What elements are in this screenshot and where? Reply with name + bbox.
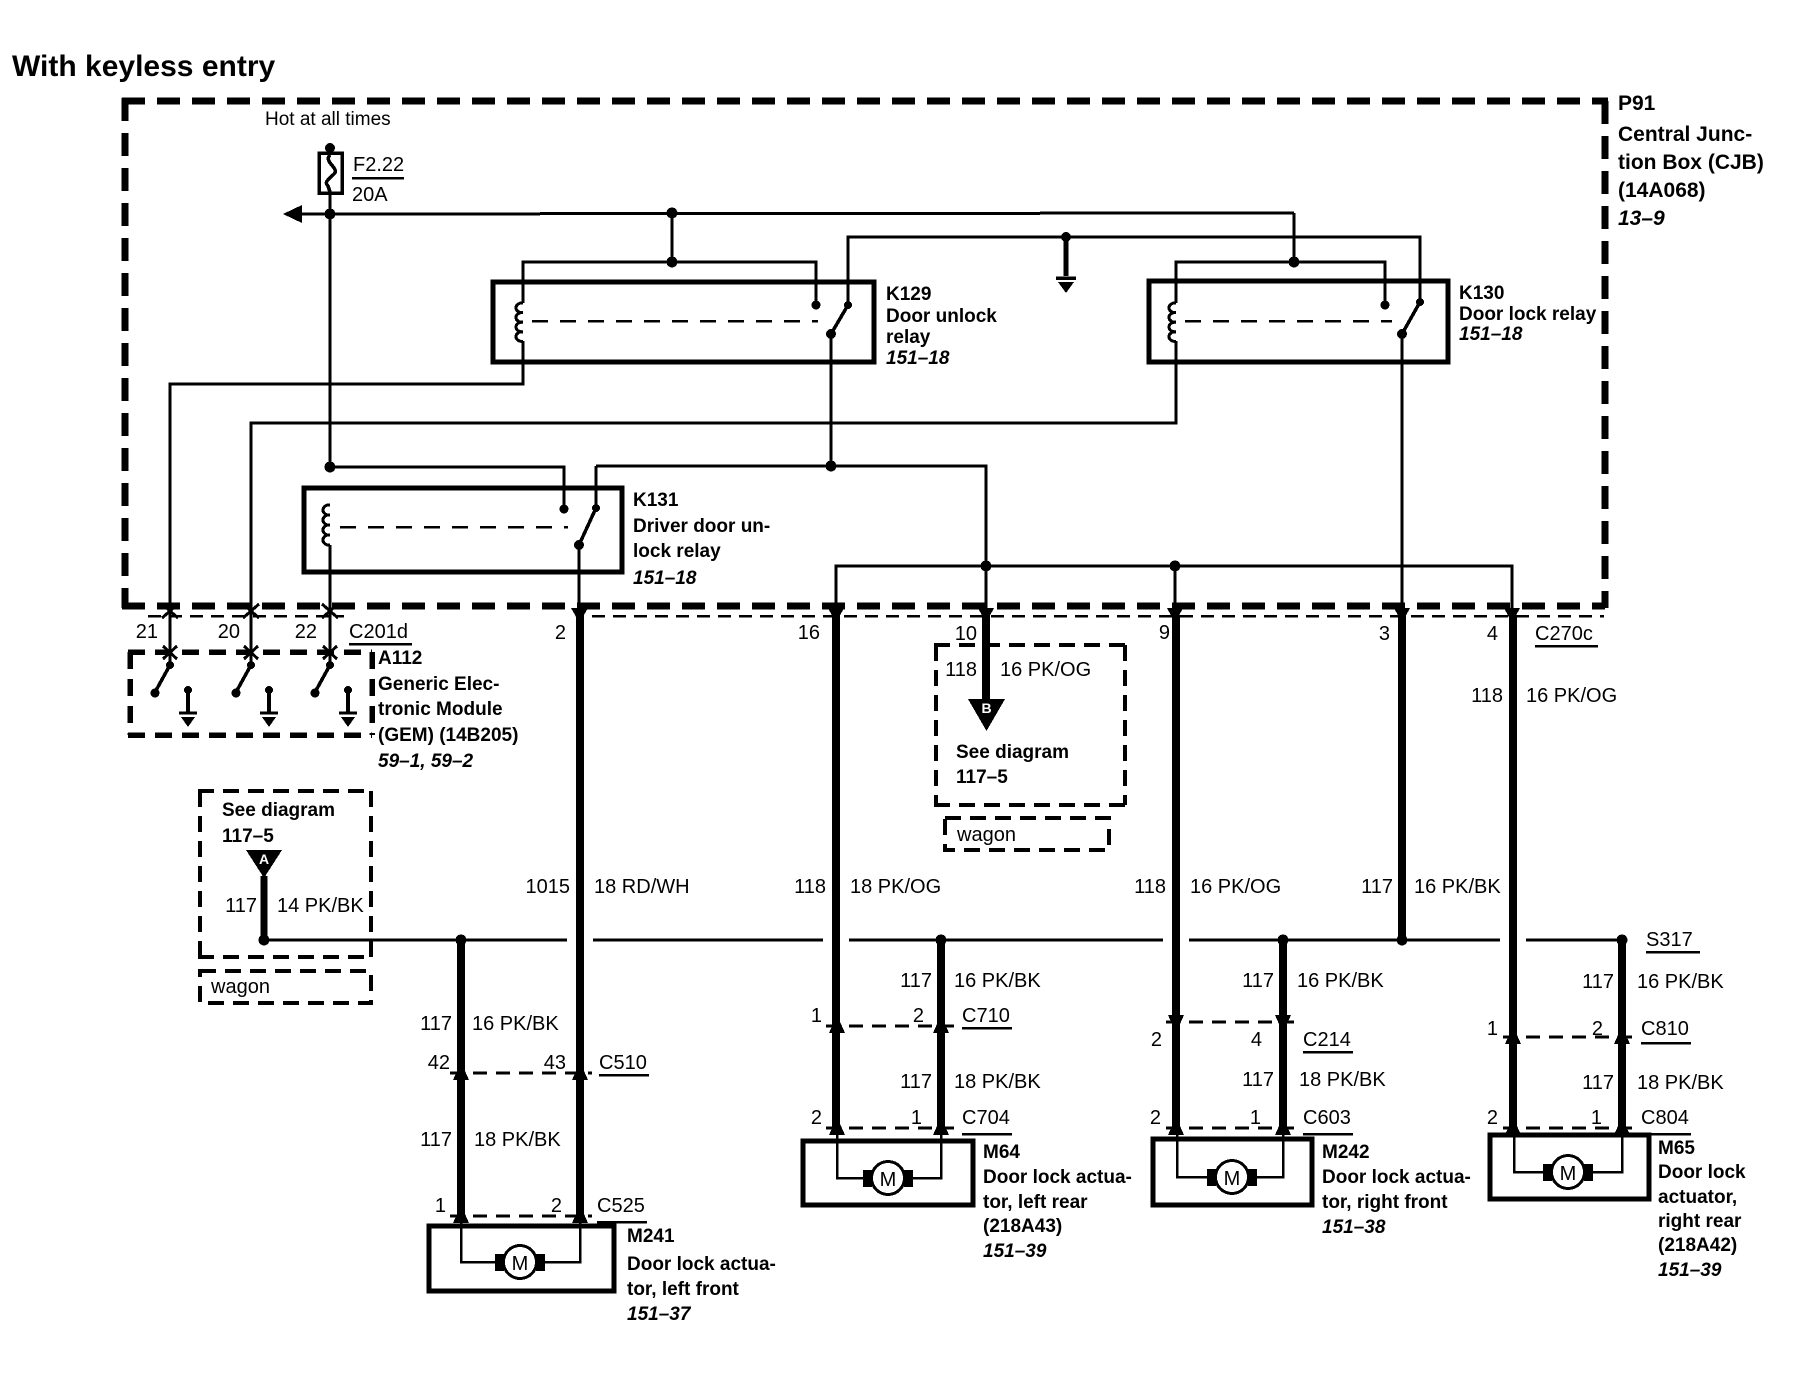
- connector C804: [1487, 1107, 1691, 1135]
- svg-text:2: 2: [555, 622, 566, 644]
- wire: M64 column branch thick: [937, 940, 945, 1128]
- svg-text:(14A068): (14A068): [1618, 179, 1706, 202]
- ground symbol (CJB): [1056, 237, 1076, 293]
- relay K129 pivot: [826, 329, 836, 339]
- relay K129 box: [493, 282, 874, 362]
- svg-text:C704: C704: [962, 1107, 1010, 1129]
- wire: drop to K130 coil rail: [1293, 213, 1296, 262]
- svg-text:tor, left front: tor, left front: [627, 1279, 740, 1300]
- wire: pin9 drop: [1174, 566, 1177, 613]
- svg-text:16 PK/BK: 16 PK/BK: [1637, 971, 1724, 993]
- wagon box (middle): [945, 818, 1109, 850]
- svg-text:16 PK/OG: 16 PK/OG: [1190, 876, 1281, 898]
- K130 label: [1459, 283, 1597, 345]
- node: fuse junction: [325, 209, 336, 220]
- actuator M65 box: [1490, 1135, 1649, 1199]
- svg-text:118: 118: [1471, 685, 1503, 707]
- GEM switch 2 ground: [260, 686, 278, 727]
- connector C704: [811, 1107, 1012, 1135]
- svg-text:tronic Module: tronic Module: [378, 699, 503, 720]
- svg-text:Central Junc-: Central Junc-: [1618, 123, 1752, 146]
- svg-text:151–18: 151–18: [886, 348, 950, 369]
- svg-text:Door lock relay: Door lock relay: [1459, 304, 1597, 325]
- M64 internal wires: [837, 1130, 941, 1178]
- pin 10 arrow: [978, 608, 994, 623]
- svg-text:42: 42: [428, 1052, 450, 1074]
- fuse F2.22 20A: [319, 143, 404, 206]
- relay K129 switch arm: [831, 305, 848, 334]
- see-diagram box B: [934, 645, 1127, 805]
- M242 label: [1322, 1142, 1471, 1238]
- M241 label: [627, 1226, 776, 1325]
- svg-text:151–37: 151–37: [627, 1304, 692, 1325]
- svg-text:10: 10: [955, 623, 977, 645]
- svg-text:C810: C810: [1641, 1018, 1689, 1040]
- relay K131 box: [304, 488, 622, 572]
- svg-text:2: 2: [1150, 1107, 1161, 1129]
- svg-text:20: 20: [218, 621, 240, 643]
- off-page arrow B: [968, 699, 1005, 731]
- svg-text:117: 117: [1361, 876, 1393, 898]
- svg-text:151–18: 151–18: [633, 568, 697, 589]
- svg-text:C201d: C201d: [349, 621, 408, 643]
- motor M241: [495, 1246, 545, 1279]
- svg-text:A112: A112: [378, 648, 422, 669]
- svg-text:118: 118: [945, 659, 977, 681]
- wire: M241 column branch thick: [457, 940, 465, 1216]
- node: A splice on lock rail: [259, 935, 270, 946]
- wire: pin 4 thick drop: [1509, 615, 1517, 1128]
- svg-text:4: 4: [1251, 1029, 1262, 1051]
- connector C270c dashed line: [592, 615, 1604, 618]
- relay K131 actuation dashed link: [340, 526, 568, 529]
- wire: K129 pivot output down: [830, 334, 833, 466]
- motor M64: [863, 1162, 913, 1195]
- svg-text:20A: 20A: [352, 184, 388, 206]
- relay K130 box: [1149, 281, 1448, 362]
- connector C710: [811, 1005, 1012, 1033]
- svg-text:lock relay: lock relay: [633, 541, 721, 562]
- pin 20 arrow: [243, 604, 259, 618]
- wire: K130 coil/contact feed rail: [1176, 262, 1385, 303]
- relay K130 actuation dashed link: [1185, 320, 1392, 323]
- svg-text:117: 117: [420, 1013, 452, 1035]
- svg-text:actuator,: actuator,: [1658, 1187, 1737, 1208]
- M242 internal wires: [1177, 1130, 1283, 1177]
- relay K129 fixed contact: [812, 301, 821, 310]
- wire: fuse feed horizontal with left arrow: [294, 213, 1294, 214]
- GEM pin 21 entry arrow: [163, 646, 177, 659]
- svg-text:M: M: [512, 1253, 529, 1275]
- svg-text:M241: M241: [627, 1226, 675, 1247]
- svg-text:(GEM) (14B205): (GEM) (14B205): [378, 725, 518, 746]
- svg-text:18 PK/BK: 18 PK/BK: [1299, 1069, 1386, 1091]
- svg-text:See diagram: See diagram: [222, 800, 335, 821]
- actuator M64 box: [803, 1141, 973, 1205]
- relay K129 coil: [516, 303, 523, 342]
- svg-text:1: 1: [1250, 1107, 1261, 1129]
- svg-text:S317: S317: [1646, 929, 1693, 951]
- see-diagram box A: [198, 791, 373, 957]
- node: pin 3 join: [1397, 935, 1408, 946]
- svg-text:K129: K129: [886, 284, 931, 305]
- GEM switch 1 ground: [179, 686, 197, 727]
- GEM switch 2: [232, 650, 256, 698]
- svg-text:151–38: 151–38: [1322, 1217, 1386, 1238]
- svg-text:Door unlock: Door unlock: [886, 306, 997, 327]
- see-diagram A text: [222, 800, 335, 847]
- motor M65: [1543, 1156, 1593, 1189]
- wire: K131 fixed contact feed: [330, 467, 564, 509]
- module A112 GEM dashed box: [128, 652, 372, 735]
- svg-text:C270c: C270c: [1535, 623, 1593, 645]
- svg-text:Door lock: Door lock: [1658, 1162, 1746, 1183]
- svg-text:B: B: [981, 700, 991, 716]
- svg-text:4: 4: [1487, 623, 1498, 645]
- svg-text:1015: 1015: [526, 876, 571, 898]
- svg-text:C603: C603: [1303, 1107, 1351, 1129]
- svg-text:1: 1: [435, 1195, 446, 1217]
- svg-text:C214: C214: [1303, 1029, 1351, 1051]
- K129 label: [886, 284, 997, 369]
- svg-text:With keyless entry: With keyless entry: [12, 50, 275, 83]
- svg-text:F2.22: F2.22: [353, 154, 404, 176]
- svg-text:2: 2: [1151, 1029, 1162, 1051]
- svg-text:2: 2: [1487, 1107, 1498, 1129]
- svg-text:Door lock actua-: Door lock actua-: [1322, 1167, 1471, 1188]
- node: pin10 drop junction: [981, 561, 992, 572]
- P91 Central Junction Box dashed border: [122, 98, 1608, 608]
- svg-text:18 PK/OG: 18 PK/OG: [850, 876, 941, 898]
- connector C214: [1151, 1015, 1353, 1052]
- wire: K131 pivot down to pin 2: [578, 545, 581, 613]
- svg-text:M65: M65: [1658, 1138, 1695, 1159]
- connector C810: [1487, 1018, 1691, 1044]
- wire: K129 coil bottom to GEM pin 21: [170, 341, 523, 650]
- svg-text:117: 117: [420, 1129, 452, 1151]
- wire: K131 coil bottom to GEM pin 22: [329, 545, 332, 650]
- svg-text:43: 43: [544, 1052, 566, 1074]
- GEM switch 1: [151, 650, 175, 698]
- K131 label: [633, 490, 770, 589]
- wire: M242 column branch thick: [1279, 940, 1287, 1128]
- svg-text:Generic Elec-: Generic Elec-: [378, 674, 499, 695]
- see-diagram B text: [956, 742, 1069, 788]
- M64 label: [983, 1142, 1132, 1262]
- connector C525: [435, 1195, 647, 1223]
- svg-text:18 PK/BK: 18 PK/BK: [474, 1129, 561, 1151]
- GEM switch 3: [311, 650, 335, 698]
- svg-text:13–9: 13–9: [1618, 207, 1665, 230]
- GEM pin 22 entry arrow: [323, 646, 337, 659]
- wire: pin 10 thick drop: [982, 615, 990, 702]
- svg-text:22: 22: [295, 621, 317, 643]
- svg-text:118: 118: [1134, 876, 1166, 898]
- M65 label: [1658, 1138, 1746, 1281]
- svg-text:Driver door un-: Driver door un-: [633, 516, 770, 537]
- relay K130 fixed contact: [1381, 301, 1390, 310]
- svg-text:1: 1: [811, 1005, 822, 1027]
- pin 16 arrow: [828, 608, 844, 623]
- GEM switch 3 ground: [339, 686, 357, 727]
- off-page arrow A: [246, 850, 282, 878]
- pin 2 arrow: [571, 608, 588, 623]
- pin 3 arrow: [1394, 608, 1410, 623]
- pin 9 arrow: [1167, 608, 1183, 623]
- svg-text:2: 2: [1592, 1018, 1603, 1040]
- svg-text:Door lock actua-: Door lock actua-: [983, 1167, 1132, 1188]
- svg-text:K131: K131: [633, 490, 679, 511]
- wire: unlock rail lower (pin16 to pin4): [836, 566, 1512, 613]
- svg-text:Hot at all times: Hot at all times: [265, 109, 391, 130]
- wire: A stub: [261, 876, 268, 938]
- svg-text:P91: P91: [1618, 92, 1656, 115]
- svg-text:16 PK/OG: 16 PK/OG: [1526, 685, 1617, 707]
- svg-text:M: M: [1560, 1163, 1577, 1185]
- svg-text:16 PK/BK: 16 PK/BK: [954, 970, 1041, 992]
- svg-text:117: 117: [900, 970, 932, 992]
- svg-text:14 PK/BK: 14 PK/BK: [277, 895, 364, 917]
- svg-text:wagon: wagon: [956, 824, 1016, 846]
- relay K129 moving contact pin: [844, 301, 852, 309]
- svg-text:2: 2: [551, 1195, 562, 1217]
- svg-text:59–1, 59–2: 59–1, 59–2: [378, 751, 474, 772]
- wire: pin 2 thick drop: [576, 615, 584, 1216]
- svg-text:wagon: wagon: [210, 976, 270, 998]
- relay K129 actuation dashed link: [532, 320, 818, 323]
- svg-text:(218A42): (218A42): [1658, 1235, 1737, 1256]
- wagon box (left): [200, 971, 371, 1003]
- wire: pin 9 thick drop: [1172, 615, 1180, 1128]
- splice S317: [1617, 935, 1628, 946]
- svg-text:151–18: 151–18: [1459, 324, 1523, 345]
- svg-text:2: 2: [913, 1005, 924, 1027]
- node: fuse to K131 junction: [325, 462, 336, 473]
- wire: K130 coil bottom to GEM pin 20: [251, 341, 1176, 650]
- node: K129 coil rail junction: [667, 257, 678, 268]
- wire: K130 pivot output down to pin 3: [1401, 334, 1404, 613]
- svg-text:151–39: 151–39: [983, 1241, 1047, 1262]
- wire: pin10 drop: [985, 566, 988, 613]
- svg-text:3: 3: [1379, 623, 1390, 645]
- GEM pin 20 entry arrow: [244, 646, 258, 659]
- wire: pin 16 thick drop: [832, 615, 840, 1128]
- connector pin labels: [136, 621, 1498, 645]
- svg-text:117: 117: [225, 895, 257, 917]
- svg-text:A: A: [259, 851, 269, 867]
- svg-text:relay: relay: [886, 327, 931, 348]
- svg-text:151–39: 151–39: [1658, 1260, 1722, 1281]
- svg-text:18 PK/BK: 18 PK/BK: [954, 1071, 1041, 1093]
- actuator M241 box: [429, 1226, 614, 1291]
- wire: K129 coil/contact feed rail: [523, 262, 816, 303]
- svg-text:16 PK/BK: 16 PK/BK: [1414, 876, 1501, 898]
- connector C603: [1150, 1107, 1353, 1135]
- pin 22 arrow: [322, 604, 338, 618]
- node: K129 feed junction: [667, 208, 678, 219]
- svg-text:117: 117: [1242, 970, 1274, 992]
- svg-text:C525: C525: [597, 1195, 645, 1217]
- relay K131 coil: [323, 505, 330, 545]
- node: K130 coil rail junction: [1289, 257, 1300, 268]
- pin 21 arrow: [162, 604, 178, 618]
- relay K131 switch arm: [579, 508, 596, 545]
- svg-text:M: M: [1224, 1168, 1241, 1190]
- connector C510: [428, 1052, 649, 1080]
- svg-text:2: 2: [811, 1107, 822, 1129]
- relay K131 pivot: [574, 540, 584, 550]
- svg-text:117–5: 117–5: [956, 767, 1008, 788]
- svg-text:9: 9: [1159, 622, 1170, 644]
- svg-text:16: 16: [798, 622, 820, 644]
- wire: unlock rail upper (K131 moving pin to pin10 drop): [596, 466, 986, 566]
- svg-text:tor, left rear: tor, left rear: [983, 1192, 1088, 1213]
- svg-text:21: 21: [136, 621, 158, 643]
- pin 4 arrow: [1504, 608, 1520, 623]
- node: C510 branch: [456, 935, 467, 946]
- M65 internal wires: [1514, 1130, 1622, 1172]
- wire: lock rail horizontal: [264, 939, 1622, 942]
- svg-text:117: 117: [900, 1071, 932, 1093]
- svg-text:16 PK/BK: 16 PK/BK: [472, 1013, 559, 1035]
- motor M242: [1207, 1161, 1257, 1194]
- wire: M65 column branch thick: [1618, 940, 1626, 1128]
- wire: drop to K129 coil rail: [671, 213, 674, 262]
- relay K130 moving contact pin: [1416, 298, 1424, 306]
- node: pin9 drop junction: [1170, 561, 1181, 572]
- svg-text:117: 117: [1242, 1069, 1274, 1091]
- connector C201d dashed line: [148, 615, 344, 618]
- svg-text:1: 1: [1591, 1107, 1602, 1129]
- svg-text:Door lock actua-: Door lock actua-: [627, 1254, 776, 1275]
- svg-text:tor, right front: tor, right front: [1322, 1192, 1448, 1213]
- svg-text:(218A43): (218A43): [983, 1216, 1062, 1237]
- svg-text:1: 1: [911, 1107, 922, 1129]
- wire: pin 3 thick drop: [1398, 615, 1406, 938]
- node: C710 branch: [936, 935, 947, 946]
- actuator M242 box: [1153, 1139, 1312, 1205]
- M241 internal wires: [461, 1218, 580, 1262]
- svg-text:C510: C510: [599, 1052, 647, 1074]
- node: C214 branch: [1278, 935, 1289, 946]
- A112 GEM label: [378, 648, 518, 772]
- svg-text:right rear: right rear: [1658, 1211, 1742, 1232]
- svg-text:117–5: 117–5: [222, 826, 274, 847]
- svg-text:tion Box (CJB): tion Box (CJB): [1618, 151, 1764, 174]
- wire: ground rail between relay arms: [848, 237, 1420, 303]
- relay K131 moving contact pin: [592, 504, 600, 512]
- relay K130 coil: [1169, 303, 1176, 342]
- svg-text:118: 118: [794, 876, 826, 898]
- svg-text:M64: M64: [983, 1142, 1020, 1163]
- svg-text:M: M: [880, 1169, 897, 1191]
- relay K130 switch arm: [1402, 302, 1420, 334]
- relay K131 fixed contact: [560, 505, 569, 514]
- P91 CJB label: [1618, 92, 1764, 230]
- relay K130 pivot: [1397, 329, 1407, 339]
- svg-text:1: 1: [1487, 1018, 1498, 1040]
- wire: fuse vertical down to K131: [329, 193, 332, 467]
- svg-text:18 PK/BK: 18 PK/BK: [1637, 1072, 1724, 1094]
- wire: K131 moving pin up: [595, 466, 598, 508]
- node: K129 output on unlock rail: [826, 461, 837, 472]
- svg-text:117: 117: [1582, 971, 1614, 993]
- svg-text:117: 117: [1582, 1072, 1614, 1094]
- svg-text:16 PK/BK: 16 PK/BK: [1297, 970, 1384, 992]
- svg-text:M242: M242: [1322, 1142, 1370, 1163]
- svg-text:C710: C710: [962, 1005, 1010, 1027]
- svg-text:See diagram: See diagram: [956, 742, 1069, 763]
- svg-text:16 PK/OG: 16 PK/OG: [1000, 659, 1091, 681]
- svg-text:C804: C804: [1641, 1107, 1689, 1129]
- svg-text:K130: K130: [1459, 283, 1504, 304]
- node: ground junction: [1061, 232, 1071, 242]
- svg-text:18 RD/WH: 18 RD/WH: [594, 876, 690, 898]
